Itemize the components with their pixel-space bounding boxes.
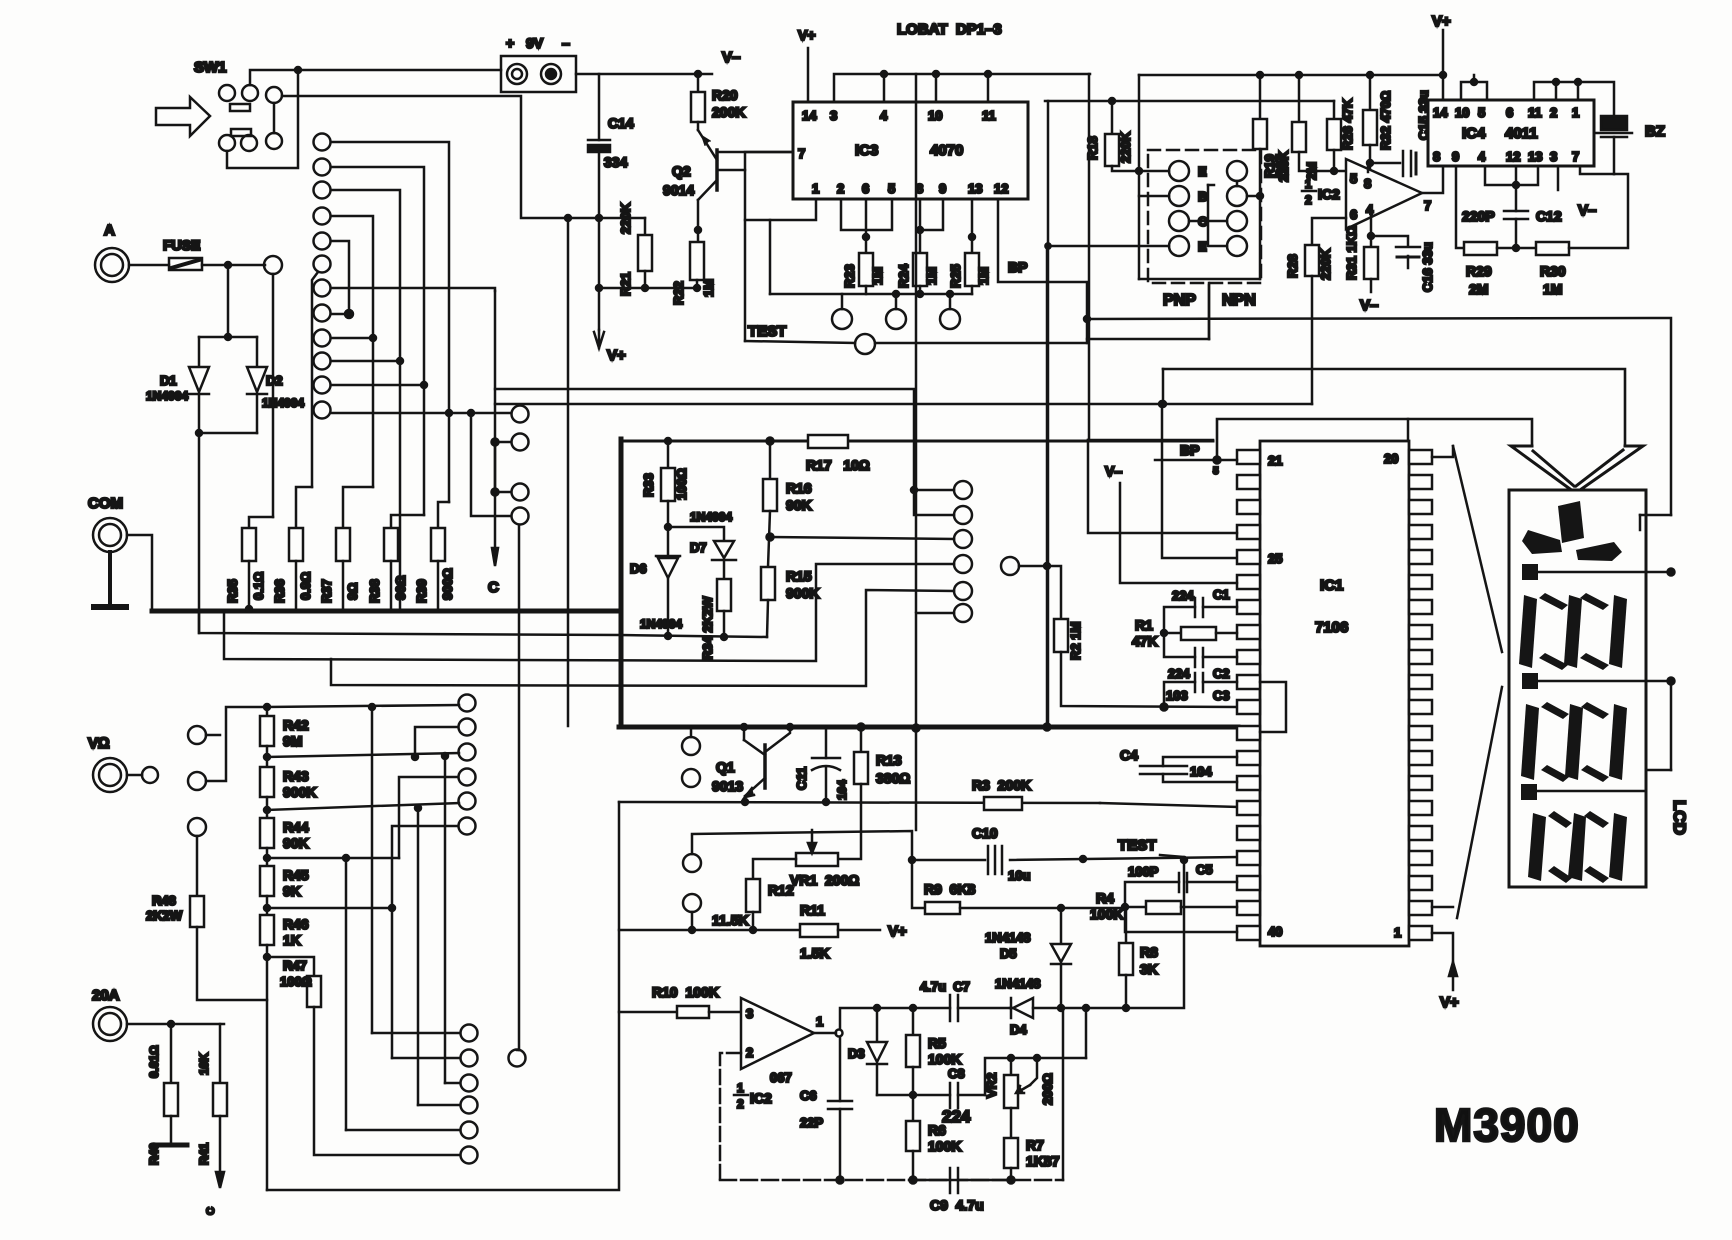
wire R39 bottom: [437, 561, 440, 609]
svg-text:100K: 100K: [1090, 906, 1123, 922]
svg-text:2: 2: [1550, 105, 1557, 120]
svg-text:C5: C5: [1196, 862, 1213, 877]
svg-text:R29: R29: [1466, 263, 1492, 279]
wire diode bottoms join: [199, 432, 257, 435]
svg-text:1: 1: [1305, 177, 1312, 191]
svg-text:9K: 9K: [283, 883, 301, 899]
node C arrow: [494, 291, 497, 560]
wire N2 tap: [392, 1057, 460, 1060]
svg-text:R3 200K: R3 200K: [972, 777, 1031, 793]
svg-text:C8: C8: [948, 1066, 965, 1081]
VR2 wiper: [1018, 1085, 1030, 1092]
wire row R45/R46 junction: [267, 907, 392, 910]
wire y419 BP to arrow: [1217, 419, 1532, 460]
svg-text:B: B: [1198, 189, 1207, 204]
resistor R3 200K: [984, 797, 1022, 810]
resistor R35 0.1&#8486;: [242, 528, 256, 561]
wire IC4 pin14 V+: [1442, 75, 1445, 100]
junction R40 top: [168, 1021, 174, 1027]
wire IC3 pin9 down: [920, 199, 943, 230]
svg-text:C: C: [488, 579, 499, 596]
switch contact P1: [954, 481, 972, 499]
wire row R43/R44 junction: [267, 803, 459, 810]
svg-text:22P: 22P: [800, 1115, 823, 1130]
switch contact M1: [512, 406, 529, 423]
switch contact L8: [314, 305, 331, 322]
wire y404 long: [495, 403, 1312, 406]
svg-text:D5: D5: [1000, 946, 1017, 961]
junction C10 left: [909, 857, 915, 863]
svg-text:11: 11: [1528, 105, 1542, 120]
svg-text:100P: 100P: [1128, 864, 1159, 879]
wire NPN right verticals: [1236, 181, 1239, 186]
wire y802 row: [619, 802, 1100, 803]
wire out node down: [839, 1037, 842, 1101]
resistor R15 900K: [761, 567, 775, 600]
svg-text:90K: 90K: [283, 835, 309, 851]
wire R9 to R8: [1061, 908, 1126, 943]
wire L10 tap: [331, 360, 400, 363]
svg-text:R31 1KΩ: R31 1KΩ: [1344, 226, 1359, 280]
wire IC3 pin6 to R23: [865, 199, 868, 253]
switch contact U5: [459, 793, 476, 810]
transistor Q1 9013: [763, 745, 767, 788]
wire L3 feed down: [331, 190, 400, 609]
wire x1088 vertical: [1088, 74, 1091, 440]
switch contact P4: [954, 555, 972, 573]
wire IC4 pins10-5 tie: [1461, 82, 1487, 100]
svg-text:12: 12: [994, 181, 1008, 196]
ground stem: [108, 552, 112, 605]
wire R21 bottom: [644, 271, 647, 288]
resistor R30 1M: [1536, 242, 1569, 255]
wire IC3 pin1 jog: [745, 199, 816, 220]
wire W1: [199, 611, 621, 635]
svg-text:C11: C11: [794, 767, 809, 790]
svg-text:R18: R18: [1085, 136, 1100, 160]
junction battery rail: [295, 67, 301, 73]
wire right loop vertical: [1062, 1007, 1065, 1180]
junction L4 feed on L9 row: [370, 335, 376, 341]
svg-text:3: 3: [746, 1006, 753, 1021]
wire dp3 tap: [1537, 790, 1646, 793]
capacitor C5 100P: [1187, 881, 1237, 884]
wire R38 bottom: [390, 561, 393, 609]
svg-text:COM: COM: [88, 495, 123, 512]
wire L7 to c7 feed: [331, 288, 495, 291]
wire IC4 pins11-2-1 tie: [1534, 82, 1578, 100]
capacitor C11 104: [825, 727, 828, 758]
wire test rail 294: [770, 293, 972, 296]
svg-text:R9 6K8: R9 6K8: [924, 881, 976, 897]
wire P7 to R2: [1019, 566, 1061, 619]
diode D7: [714, 541, 734, 558]
wire x692 contact stub: [691, 912, 694, 930]
resistor R36 0.9&#8486;: [289, 528, 303, 561]
svg-text:1: 1: [737, 1081, 744, 1095]
wire y101 rail: [1045, 100, 1334, 103]
wire R37 jog: [343, 487, 373, 528]
arrow to LCD inner right: [1576, 450, 1623, 486]
contact VOhm small: [142, 767, 158, 783]
contact lone lower: [509, 1050, 526, 1067]
junction R13 bus: [858, 724, 865, 731]
svg-text:067: 067: [770, 1070, 792, 1085]
svg-text:224: 224: [1172, 588, 1194, 603]
svg-text:R1: R1: [1135, 617, 1153, 633]
svg-text:E: E: [1198, 164, 1207, 179]
buzzer BZ: [1601, 116, 1627, 130]
svg-text:C14: C14: [608, 115, 634, 131]
svg-text:R5: R5: [928, 1035, 946, 1051]
wire M4 down long: [518, 525, 521, 1050]
svg-text:R7: R7: [1026, 1137, 1044, 1153]
wire IC3 pin4 stub: [883, 74, 886, 102]
svg-text:200K: 200K: [712, 104, 745, 120]
wire A to fuse: [129, 264, 169, 267]
svg-text:7: 7: [1572, 149, 1579, 164]
switch contact P6: [954, 604, 972, 622]
wire R47 bottom to N6: [314, 1007, 460, 1155]
svg-text:1: 1: [812, 181, 819, 196]
svg-text:VR1 200Ω: VR1 200Ω: [790, 872, 859, 888]
svg-text:3K: 3K: [1140, 961, 1158, 977]
svg-text:224: 224: [1168, 666, 1190, 681]
wire R9 row: [912, 860, 925, 908]
wire IC3 pin7 vertical: [745, 152, 793, 341]
wire R39 jog: [438, 502, 449, 528]
svg-text:90K: 90K: [786, 497, 812, 513]
wire x1047 vertical: [1046, 245, 1049, 727]
junction row810 x418: [415, 805, 421, 811]
switch SW1 contact A2: [242, 85, 258, 101]
switch contact N1: [461, 1025, 478, 1042]
wire N4 tap: [418, 1104, 460, 1107]
wire Q2 collector down: [697, 200, 700, 242]
junction R21 bottom: [642, 285, 648, 291]
junction R5 top: [910, 1005, 916, 1011]
wire W2: [224, 564, 954, 661]
wire IC2a pin4 down: [1370, 212, 1373, 236]
svg-text:R25: R25: [948, 264, 963, 288]
svg-text:C6: C6: [800, 1088, 817, 1103]
svg-text:220K: 220K: [1318, 248, 1333, 280]
switch contact N3: [461, 1075, 478, 1092]
svg-text:20: 20: [1384, 451, 1398, 466]
wire tie to BZ: [1578, 82, 1614, 116]
svg-text:BP: BP: [1180, 442, 1199, 458]
svg-text:9: 9: [1452, 149, 1459, 164]
svg-text:A: A: [104, 222, 115, 239]
wire D1 node down to W1: [198, 433, 201, 633]
wire V- rail: [599, 73, 712, 76]
wire dp1 tap: [1538, 571, 1671, 574]
wire chain to R46 bottom node: [266, 945, 269, 1190]
socket PNP pin C: [1169, 211, 1189, 231]
svg-text:334: 334: [604, 154, 628, 170]
switch contact M2: [512, 434, 529, 451]
wire diode top split: [199, 336, 257, 339]
svg-text:R23: R23: [842, 264, 857, 288]
wire IC3 top tie: [834, 74, 1090, 102]
svg-text:SW1: SW1: [194, 59, 227, 76]
switch SW1 contact B2: [241, 135, 257, 151]
svg-text:R6: R6: [928, 1122, 946, 1138]
wire R31 bottom V-: [1370, 279, 1373, 292]
svg-text:R37: R37: [319, 579, 334, 603]
svg-text:R34 2K2W: R34 2K2W: [700, 596, 715, 660]
junction R18: [1109, 98, 1115, 104]
wire IC4 pin9 down to R29: [1456, 166, 1464, 248]
wire C14 down: [598, 152, 601, 218]
transistor socket dashed box: [1148, 150, 1261, 283]
wire fuse node down to diodes: [227, 265, 230, 337]
wire y369 to arrow: [1163, 369, 1625, 444]
svg-text:R45: R45: [283, 867, 309, 883]
svg-text:2: 2: [746, 1045, 753, 1060]
ground R40: [170, 1116, 173, 1143]
wire Q2 base right: [717, 169, 745, 172]
LCD box: [1509, 490, 1646, 887]
resistor R29 2M: [1464, 242, 1497, 255]
svg-text:2: 2: [837, 181, 844, 196]
resistor R16 90K: [769, 441, 772, 479]
svg-text:R44: R44: [283, 819, 309, 835]
capacitor C6 22P: [828, 1100, 852, 1103]
svg-text:2: 2: [737, 1097, 744, 1111]
wire IC3 pin10 stub: [935, 74, 938, 102]
wire L5 to L8 feed: [331, 241, 349, 314]
op-amp IC2b triangle: [741, 998, 814, 1069]
terminal COM: [93, 518, 127, 552]
switch contact L11: [314, 377, 331, 394]
wire L9 tap: [331, 337, 373, 340]
LCD digit 8 first: [1519, 595, 1537, 668]
switch contact M4: [512, 508, 529, 525]
svg-text:D7: D7: [690, 540, 707, 555]
svg-text:PNP: PNP: [1163, 292, 1196, 309]
wire feed x346 down: [345, 858, 348, 1130]
svg-text:10K: 10K: [197, 1053, 211, 1075]
svg-text:1M: 1M: [870, 267, 885, 285]
wire R32 bottom node: [1369, 145, 1372, 182]
wire socket inner vertical: [1208, 185, 1227, 246]
svg-text:11: 11: [982, 108, 996, 123]
svg-text:9V: 9V: [526, 35, 544, 51]
wire chain link: [266, 746, 269, 767]
resistor R42 9M: [260, 716, 274, 746]
junction box top R16: [767, 438, 774, 445]
socket NPN pin C: [1227, 211, 1247, 231]
svg-text:V+: V+: [607, 347, 626, 364]
switch contact N2: [461, 1050, 478, 1067]
svg-text:1M: 1M: [976, 267, 991, 285]
block arrow pointing right: [156, 97, 210, 136]
wire N3 tap: [445, 1082, 460, 1085]
wire R3 to IC1: [1100, 803, 1238, 807]
wire R5 to C8 row: [912, 1067, 915, 1095]
svg-text:25: 25: [1268, 551, 1282, 566]
wire R35 bottom: [248, 561, 251, 609]
wire M4 to L12 row: [471, 413, 511, 516]
svg-text:1: 1: [816, 1014, 823, 1029]
V+ arrow down: [594, 330, 604, 348]
svg-text:–: –: [562, 35, 570, 51]
LCD dp2: [1522, 673, 1538, 689]
resistor R40 0.01ohm: [170, 1024, 173, 1083]
wire 20A row: [127, 1023, 224, 1026]
switch contact L5: [314, 233, 331, 250]
wire D6 R34 R15 bottom rail: [621, 635, 767, 637]
svg-text:200Ω: 200Ω: [1040, 1073, 1055, 1105]
socket PNP pin B: [1169, 186, 1189, 206]
switch contact L10: [314, 353, 331, 370]
svg-text:224: 224: [942, 1107, 971, 1126]
resistor R2 1M: [1054, 619, 1068, 652]
wire R6 bottom: [912, 1151, 915, 1180]
wire bottom socket row: [1139, 278, 1260, 281]
junction Q1 bus: [741, 724, 747, 730]
contact circle after fuse: [264, 256, 282, 274]
wire B row left: [1139, 195, 1169, 198]
wire x1139 vertical: [1138, 75, 1141, 279]
svg-text:0.01Ω: 0.01Ω: [147, 1045, 161, 1078]
diode D6: [656, 555, 680, 558]
wire IC3 pin2 pin5 tie: [841, 199, 892, 230]
wire COM to bus: [127, 535, 152, 609]
svg-text:3: 3: [830, 108, 837, 123]
capacitor C8 224: [949, 1083, 952, 1108]
resistor R43 900K: [260, 767, 274, 797]
LCD dp3: [1521, 784, 1537, 800]
socket NPN pin B: [1227, 186, 1247, 206]
junction row707 x372: [369, 704, 375, 710]
svg-text:100Ω: 100Ω: [674, 468, 689, 500]
svg-text:7: 7: [798, 146, 805, 161]
junction R35 bus: [246, 606, 252, 612]
svg-text:R30: R30: [1540, 263, 1566, 279]
wire feed x392 down: [391, 908, 394, 1058]
svg-text:220K: 220K: [1118, 131, 1133, 163]
wire R48 bottom: [197, 927, 267, 1000]
switch contact L12: [314, 402, 331, 419]
wire row707 to U1: [267, 705, 459, 707]
svg-text:E: E: [1198, 239, 1207, 254]
wire out node up: [840, 1008, 913, 1029]
junction diode top: [225, 334, 231, 340]
svg-text:6: 6: [1506, 105, 1513, 120]
wire IC3 pin12 BP: [998, 199, 1087, 343]
svg-text:D4: D4: [1010, 1022, 1027, 1037]
wire Q1 base-emitter verticals: [743, 727, 746, 740]
resistor R4 100K: [1122, 904, 1128, 910]
capacitor C12 220P: [1515, 185, 1518, 211]
wire chain link: [266, 797, 269, 818]
wire row R42/R43 junction: [267, 753, 459, 757]
svg-text:C12: C12: [1536, 208, 1562, 224]
resistor R13 380ohm: [860, 727, 863, 752]
wire U6 tap: [392, 826, 458, 908]
svg-text:D3: D3: [848, 1046, 865, 1061]
junction C10 right: [1080, 856, 1086, 862]
svg-text:R21: R21: [618, 272, 633, 296]
svg-text:9M: 9M: [283, 733, 302, 749]
svg-text:R16: R16: [786, 480, 812, 496]
svg-text:4: 4: [880, 108, 888, 123]
capacitor C4 104: [1163, 757, 1237, 766]
wire V+ top rail: [1139, 74, 1443, 77]
wire IC4 pin7: [1580, 166, 1614, 174]
diode D3: [876, 1008, 879, 1042]
svg-text:6: 6: [862, 181, 869, 196]
wire R12 bottom to V+ row: [752, 912, 755, 930]
diode D1: [189, 367, 209, 394]
svg-text:VR2: VR2: [984, 1073, 999, 1098]
IC IC1 7106 box: [1260, 441, 1409, 946]
svg-text:90Ω: 90Ω: [393, 576, 408, 600]
svg-text:C16 33u: C16 33u: [1420, 242, 1435, 292]
switch contact L6: [314, 256, 331, 273]
wire R22 bottom row: [696, 280, 699, 288]
svg-text:10: 10: [1455, 105, 1469, 120]
junction L12 row x471: [468, 410, 474, 416]
svg-text:8: 8: [1364, 176, 1371, 191]
svg-text:100K: 100K: [928, 1051, 961, 1067]
wire L6 down to R36: [312, 272, 318, 487]
contact chain upper: [188, 726, 206, 744]
contact x692 lower: [683, 894, 701, 912]
wire VR1 left to R12: [753, 859, 796, 879]
contact chain lower: [188, 772, 206, 790]
wire V+ node down: [598, 218, 601, 330]
wire L8 tap: [331, 313, 349, 316]
wire feed x372 down: [371, 707, 374, 1033]
wire y440 segment: [1088, 439, 1213, 442]
svg-text:1: 1: [1572, 105, 1579, 120]
arrow to LCD inner left: [1533, 451, 1574, 486]
resistor R38 90&#8486;: [384, 528, 398, 561]
battery terminal +: [507, 64, 527, 84]
svg-text:0.1Ω: 0.1Ω: [251, 572, 266, 600]
capacitor C1 224: [1194, 598, 1197, 617]
wire L2 to R38 feed: [331, 167, 424, 515]
junction row908 x392: [389, 905, 395, 911]
diode D2: [247, 367, 267, 394]
svg-text:10u: 10u: [1008, 868, 1030, 883]
switch contact P2: [954, 506, 972, 524]
switch SW1 wiper bar bottom: [231, 129, 251, 136]
wire R36 bottom: [295, 561, 298, 609]
funnel diagonal lower: [1457, 687, 1502, 918]
wire pin1 to V+: [1432, 933, 1453, 962]
wire x1162 vertical to pin25: [1162, 404, 1238, 558]
svg-text:900Ω: 900Ω: [440, 568, 455, 600]
svg-text:14: 14: [1433, 105, 1448, 120]
wire R37 bottom: [342, 561, 345, 609]
resistor R39 900&#8486;: [431, 528, 445, 561]
svg-text:C3: C3: [1213, 688, 1230, 703]
junction D3 top: [874, 1005, 880, 1011]
svg-text:5: 5: [1213, 466, 1219, 477]
wire pin out lower: [1432, 906, 1453, 909]
funnel diagonal upper: [1453, 446, 1502, 652]
wire row R44/R45 junction: [267, 857, 399, 860]
contact TEST: [855, 334, 875, 354]
IC1 left pins: [1237, 450, 1260, 464]
wire R16 to R15: [768, 511, 770, 567]
wire D7 branch: [668, 527, 724, 541]
wire R30 right loop: [1569, 174, 1628, 248]
